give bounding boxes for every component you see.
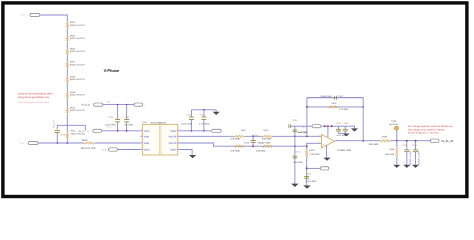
- resistor R606 (divider chain): [66, 42, 68, 49]
- wire VOUTN to opamp: [180, 143, 306, 146]
- svg-text:C521: C521: [292, 119, 298, 122]
- svg-text:V1_A: V1_A: [79, 130, 85, 133]
- svg-text:VDD2: VDD2: [170, 130, 177, 133]
- svg-text:V1_IN_U0: V1_IN_U0: [441, 140, 454, 143]
- node tap branch wire: [57, 125, 67, 129]
- svg-text:C517: C517: [295, 150, 301, 153]
- svg-text:64R,0.1%,LTW: 64R,0.1%,LTW: [70, 63, 86, 66]
- svg-text:100pF SMD: 100pF SMD: [320, 95, 332, 98]
- svg-text:0R0 SMD: 0R0 SMD: [369, 143, 379, 146]
- wire opamp V- to ground: [326, 145, 328, 157]
- pin 2 VINP: [140, 135, 142, 137]
- junction dots on V1_A_G rail: [117, 104, 119, 106]
- svg-text:3.3k SMD: 3.3k SMD: [262, 138, 272, 141]
- wire VDD2 rail: [180, 130, 211, 132]
- svg-text:R609: R609: [70, 91, 76, 94]
- svg-text:AMC1200BDWV: AMC1200BDWV: [151, 121, 167, 124]
- svg-text:V1OUT_A_FILT: V1OUT_A_FILT: [418, 150, 421, 165]
- svg-text:C743: C743: [200, 113, 206, 116]
- node REF junction: [306, 167, 308, 169]
- pin 5 GND2: [178, 149, 181, 151]
- svg-text:GND2: GND2: [170, 149, 177, 152]
- svg-text:R585: R585: [382, 135, 388, 138]
- wire left bias vertical: [294, 126, 296, 183]
- svg-text:100k SMD: 100k SMD: [385, 153, 395, 156]
- svg-text:C522: C522: [338, 95, 344, 98]
- pin 4 GND1: [140, 149, 142, 151]
- junction dots bottom rail: [56, 142, 58, 144]
- svg-text:(with derating on divider chai: (with derating on divider chain): [18, 101, 50, 104]
- svg-text:R526: R526: [331, 102, 337, 105]
- svg-text:ADC Voltage Nominal 1.65Vdc at: ADC Voltage Nominal 1.65Vdc at 340Vdc ma…: [408, 125, 454, 128]
- svg-text:VOUTP: VOUTP: [168, 135, 176, 138]
- capacitor C523 (differential): [252, 136, 254, 140]
- svg-text:1uF SMD: 1uF SMD: [124, 124, 133, 127]
- ground VDD2 bypass: [215, 110, 217, 112]
- svg-text:4.7k SMD: 4.7k SMD: [339, 108, 349, 111]
- svg-text:64R,0.1%,LTW: 64R,0.1%,LTW: [70, 24, 86, 27]
- connector V1_A_G left: [94, 103, 103, 106]
- svg-text:3: 3: [141, 140, 142, 143]
- svg-text:for ADC frequency +/- 1ms max: for ADC frequency +/- 1ms max: [408, 132, 439, 135]
- svg-text:64R,0.1%,LTW: 64R,0.1%,LTW: [70, 50, 86, 53]
- op-amp U40 isolation amplifier AMC1200: [142, 124, 178, 155]
- svg-text:C523: C523: [244, 141, 250, 144]
- svg-text:x1: x1: [87, 130, 89, 133]
- wire input to divider chain: [40, 15, 68, 22]
- wire feedback resistor branch: [307, 106, 363, 108]
- wire bottom rail to R620: [38, 142, 84, 144]
- svg-text:3: 3: [318, 141, 319, 144]
- resistor R605 (divider chain): [66, 29, 68, 36]
- ground bias divider: [303, 185, 311, 188]
- svg-text:64R,0.1%,LTW: 64R,0.1%,LTW: [70, 109, 86, 112]
- svg-text:C524: C524: [306, 173, 312, 176]
- svg-text:1000pF SMD: 1000pF SMD: [258, 141, 271, 144]
- wire R620 to IC VINN: [95, 142, 141, 144]
- wire feedback to output: [362, 98, 364, 141]
- resistor R524: [234, 145, 244, 147]
- pin 1 VDD1: [140, 130, 142, 132]
- svg-text:GND1: GND1: [144, 149, 151, 152]
- svg-text:2: 2: [141, 134, 142, 137]
- svg-text:3.3k SMD: 3.3k SMD: [230, 138, 240, 141]
- svg-text:V1_A_P: V1_A_P: [53, 120, 56, 128]
- svg-text:VDD1: VDD1: [144, 130, 151, 133]
- svg-text:R607: R607: [70, 61, 76, 64]
- svg-text:TP36: TP36: [391, 120, 397, 123]
- ground opamp V-: [323, 158, 330, 161]
- svg-text:100,0.1%,LTW: 100,0.1%,LTW: [81, 147, 97, 150]
- resistor R608 (divider chain): [66, 69, 68, 77]
- svg-text:10uF SMD: 10uF SMD: [298, 131, 308, 134]
- svg-text:4: 4: [141, 147, 142, 150]
- svg-text:1: 1: [427, 140, 428, 143]
- wire output to connector: [391, 140, 431, 142]
- wire +input jog: [307, 143, 322, 146]
- svg-text:1R0: 1R0: [107, 101, 110, 104]
- svg-text:C520: C520: [344, 122, 349, 125]
- svg-text:64R,0.1%,LTW: 64R,0.1%,LTW: [70, 78, 86, 81]
- ground C526: [412, 165, 419, 168]
- svg-text:V1OUT_A_FILT: V1OUT_A_FILT: [409, 150, 412, 165]
- svg-text:R606: R606: [70, 48, 76, 51]
- ground left bias: [291, 184, 299, 187]
- pin 6 VOUTN: [178, 142, 181, 144]
- svg-text:5: 5: [179, 147, 180, 150]
- svg-text:ADC Voltage Drop 0.50V/V at 34: ADC Voltage Drop 0.50V/V at 340Vdc: [408, 128, 446, 131]
- svg-text:6: 6: [179, 140, 180, 143]
- ground C525: [403, 165, 410, 168]
- ground R586: [393, 165, 400, 168]
- svg-text:Using Vph-to-gnd 640Vdc max: Using Vph-to-gnd 640Vdc max: [18, 96, 50, 99]
- wire REF branch: [307, 167, 321, 169]
- wire bypass caps to ground: [339, 133, 346, 135]
- svg-text:5: 5: [329, 128, 330, 131]
- svg-text:C748: C748: [60, 134, 66, 137]
- pin 3 VINN: [140, 142, 142, 144]
- svg-text:7: 7: [179, 134, 180, 137]
- pin 7 VOUTP: [178, 135, 181, 137]
- svg-text:V1_A: V1_A: [107, 126, 112, 129]
- svg-text:C519: C519: [336, 122, 341, 125]
- svg-text:V_V: V_V: [20, 142, 24, 145]
- ground GND2: [189, 155, 196, 158]
- svg-text:R521: R521: [241, 129, 247, 132]
- resistor R525: [262, 145, 272, 147]
- svg-text:R604: R604: [70, 21, 76, 24]
- svg-text:4.7uF SMD: 4.7uF SMD: [199, 122, 210, 125]
- svg-text:V_U: V_U: [21, 13, 25, 16]
- svg-text:C740: C740: [108, 116, 114, 119]
- svg-text:R605: R605: [70, 34, 76, 37]
- pin 8 VDD2: [178, 130, 181, 132]
- svg-text:V1_A_G: V1_A_G: [81, 104, 90, 107]
- resistor R586 to ground: [396, 141, 398, 148]
- svg-text:64R,0.1%,LTW: 64R,0.1%,LTW: [70, 37, 86, 40]
- svg-text:VINP: VINP: [144, 135, 150, 138]
- wire bias divider R528: [306, 146, 308, 150]
- resistor R604 (divider chain): [66, 21, 68, 23]
- svg-text:R610: R610: [70, 106, 76, 109]
- svg-text:7: 7: [144, 104, 145, 107]
- svg-text:1: 1: [141, 128, 142, 131]
- resistor R610 (divider chain): [66, 99, 68, 108]
- svg-text:3V3: 3V3: [302, 125, 305, 128]
- op-amp U520 TLV: [321, 134, 334, 148]
- svg-text:1: 1: [331, 167, 332, 170]
- svg-text:3.3k SMD: 3.3k SMD: [256, 150, 266, 153]
- connector V1_A: [93, 129, 102, 132]
- wire V1_A to IC VDD1, junction dots: [102, 130, 141, 132]
- wire VDD2 bypass top rail: [191, 109, 216, 111]
- capacitor C522 feedback: [307, 97, 335, 99]
- svg-text:Test Point: Test Point: [389, 123, 399, 126]
- wire V1_B to IC GND1: [118, 149, 141, 151]
- connector 3V3 opamp: [312, 125, 321, 128]
- resistor R609 (divider chain): [66, 83, 68, 92]
- resistor R607 (divider chain): [66, 55, 68, 62]
- svg-text:C741: C741: [124, 116, 130, 119]
- svg-text:Nominal: Full-scale 640Vpk off: Nominal: Full-scale 640Vpk offset: [18, 93, 53, 96]
- svg-text:0.1uF SMD: 0.1uF SMD: [306, 180, 317, 183]
- wire divider tap to V1_A connector: [84, 125, 86, 131]
- svg-text:VOUTN: VOUTN: [168, 142, 176, 145]
- capacitor C517: [293, 129, 298, 131]
- svg-text:0.1uF SMD: 0.1uF SMD: [181, 122, 192, 125]
- wire feedback cap branch: [307, 98, 363, 137]
- wire opamp output: [335, 140, 380, 142]
- wire GND2 to ground: [180, 150, 192, 155]
- svg-text:R611: R611: [71, 130, 77, 133]
- svg-text:V-Phase: V-Phase: [104, 68, 120, 73]
- wire opamp V+ supply: [327, 126, 329, 137]
- connector REF: [320, 167, 329, 170]
- svg-text:3.3k SMD: 3.3k SMD: [230, 150, 240, 153]
- svg-text:10uF SMD: 10uF SMD: [293, 161, 303, 164]
- wire chain to tap node: [66, 114, 68, 125]
- svg-text:7.32k SMD: 7.32k SMD: [309, 153, 320, 156]
- svg-text:64R,0.1%,LTW: 64R,0.1%,LTW: [70, 94, 86, 97]
- svg-text:V1_B: V1_B: [101, 149, 107, 152]
- ground bypass caps: [343, 134, 349, 137]
- svg-text:VINN: VINN: [144, 142, 150, 145]
- connector V1_A_G right: [134, 103, 143, 106]
- svg-text:2: 2: [27, 142, 28, 145]
- connector 3V3_A: [212, 129, 221, 132]
- ground 3V3 rail: [348, 126, 355, 128]
- svg-text:R528: R528: [309, 149, 315, 152]
- svg-text:1: 1: [28, 13, 29, 16]
- svg-text:R522: R522: [263, 129, 269, 132]
- svg-text:R608: R608: [70, 76, 76, 79]
- resistor R528: [306, 150, 308, 158]
- wire 3V3 rail: [295, 125, 312, 127]
- svg-text:8: 8: [179, 128, 180, 131]
- svg-text:1: 1: [223, 130, 224, 133]
- wire VOUTP to opamp: [180, 135, 234, 137]
- capacitor C748 (across R611): [55, 130, 60, 132]
- svg-text:2: 2: [318, 134, 319, 137]
- svg-text:TLV9061 SMD: TLV9061 SMD: [337, 149, 352, 152]
- border frame: [3, 3, 467, 197]
